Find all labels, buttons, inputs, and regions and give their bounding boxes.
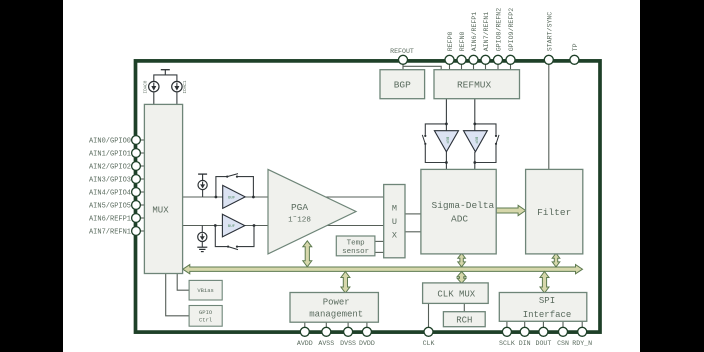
svg-text:REFOUT: REFOUT — [390, 48, 414, 55]
svg-text:Filter: Filter — [537, 207, 571, 218]
pin REFOUT — [399, 55, 408, 64]
wire IDAC0 to MUX — [153, 91, 155, 104]
svg-text:M: M — [392, 204, 397, 214]
Power management — [290, 293, 378, 323]
current source IDAC0 — [149, 81, 159, 91]
wire top pin 1 to REFMUX — [449, 63, 451, 70]
junction dots BUF2 — [214, 224, 217, 227]
bypass switch REF buffer right — [495, 135, 499, 145]
wire Temp sensor to MUX2 a — [375, 240, 384, 242]
svg-text:VBias: VBias — [197, 287, 214, 294]
svg-text:GPIO9/REFP2: GPIO9/REFP2 — [508, 8, 515, 52]
pin DVSS — [344, 327, 353, 336]
wire REFMUX to REF buffer left — [445, 99, 447, 131]
bypass wire REF buffer left — [425, 124, 446, 135]
svg-text:Power: Power — [323, 297, 350, 307]
svg-text:BUF: BUF — [444, 137, 448, 145]
wire Power management pin x=348.1 — [347, 322, 349, 327]
wire top pin 6 to REFMUX — [510, 63, 512, 70]
pin AIN0/GPIO0 (left) — [132, 136, 141, 145]
ADC to Filter arrow — [496, 205, 525, 215]
pin DOUT — [539, 327, 548, 336]
input buffer BUF2 — [222, 214, 244, 237]
wire burnout top to line — [202, 190, 204, 197]
wire line to burnout bottom — [201, 226, 203, 233]
junction dots BUF1 — [215, 196, 218, 199]
svg-text:management: management — [309, 310, 363, 320]
svg-text:AIN0/GPIO0: AIN0/GPIO0 — [89, 138, 131, 146]
bypass switch BUF2 — [227, 246, 238, 250]
svg-text:Interface: Interface — [523, 310, 572, 320]
pin START/SYNC — [544, 55, 553, 64]
wire REFOUT to REFMUX — [403, 66, 441, 69]
svg-text:REFMUX: REFMUX — [457, 80, 492, 91]
pin REFN0 — [457, 55, 466, 64]
wire top pin 5 to REFMUX — [497, 63, 499, 70]
wire REF buffer right to ADC — [474, 152, 476, 170]
bus branch to PGA — [303, 241, 312, 267]
svg-text:X: X — [392, 231, 397, 241]
reference REFMUX — [434, 70, 520, 99]
pin RDY_N — [578, 327, 587, 336]
svg-text:U: U — [392, 217, 397, 227]
wire input pin 5 to MUX — [138, 204, 144, 206]
pin TP — [570, 55, 579, 64]
bus branch to CLK MUX — [457, 272, 466, 284]
svg-text:IDAC1: IDAC1 — [183, 80, 188, 93]
bypass switch REF buffer left — [422, 135, 426, 145]
pin AIN1/GPIO1 (left) — [132, 149, 141, 158]
wire CLK MUX to CLK pin — [428, 303, 430, 327]
svg-text:CSN: CSN — [557, 340, 569, 347]
chip boundary — [136, 61, 601, 332]
bypass wire REF buffer right low — [475, 145, 496, 163]
wire CLK MUX to RCH — [463, 303, 465, 311]
pin AIN7/REFN1 — [481, 55, 490, 64]
burnout current source top — [198, 180, 207, 189]
svg-text:AIN5/GPIO5: AIN5/GPIO5 — [89, 203, 131, 211]
wire Power management pin x=366.9 — [366, 322, 368, 327]
SPI Interface — [499, 293, 587, 322]
analog input MUX — [144, 104, 182, 273]
pin AIN3/GPIO3 (left) — [132, 175, 141, 184]
wire SPI pin x=524.7 — [524, 321, 526, 327]
pin REFP0 — [445, 55, 454, 64]
VBias block — [189, 280, 222, 300]
wire Temp sensor to MUX2 b — [375, 251, 384, 253]
pin DVDD — [362, 327, 371, 336]
wire IDAC rail — [154, 75, 177, 82]
pin AIN2/GPIO2 (left) — [132, 162, 141, 171]
wire input pin 4 to MUX — [138, 191, 144, 193]
pin GPIO8/REFN2 — [494, 55, 503, 64]
power rail for burnout source top — [198, 174, 207, 180]
svg-text:BUF: BUF — [228, 196, 236, 200]
PGA amplifier — [268, 169, 356, 254]
bypass wire around BUF2 right — [237, 226, 254, 247]
wire START/SYNC to Filter — [548, 63, 550, 170]
wire MUX to PGA positive — [183, 196, 268, 198]
wire top pin 3 to REFMUX — [473, 63, 475, 70]
wire IDAC1 to MUX — [176, 91, 178, 104]
wire MUX to VBias — [177, 274, 189, 291]
wire SPI pin x=543.4 — [542, 321, 544, 327]
svg-text:Temp: Temp — [347, 239, 365, 247]
svg-text:BGP: BGP — [394, 80, 411, 91]
bypass wire around BUF1 right — [237, 177, 253, 197]
svg-text:DVDD: DVDD — [359, 340, 375, 347]
wire input pin 1 to MUX — [138, 152, 144, 154]
svg-text:sensor: sensor — [342, 248, 369, 256]
svg-text:1˜128: 1˜128 — [288, 217, 311, 225]
pin DIN — [520, 327, 529, 336]
Sigma-Delta ADC — [421, 169, 496, 254]
bus branch to Filter — [552, 253, 560, 267]
wire top pin 4 to REFMUX — [485, 63, 487, 70]
power rail for IDACs — [161, 70, 170, 75]
svg-text:TP: TP — [572, 43, 579, 51]
bus branch to Sigma-Delta ADC — [458, 253, 466, 267]
svg-text:AIN1/GPIO1: AIN1/GPIO1 — [89, 151, 131, 159]
svg-text:AIN4/GPIO4: AIN4/GPIO4 — [89, 190, 131, 198]
wire input pin 0 to MUX — [138, 139, 144, 141]
svg-text:BUF: BUF — [228, 225, 236, 229]
svg-text:ADC: ADC — [451, 213, 468, 224]
svg-text:DOUT: DOUT — [535, 340, 551, 347]
svg-text:SPI: SPI — [539, 296, 555, 306]
svg-text:CLK MUX: CLK MUX — [437, 289, 475, 299]
svg-text:Sigma-Delta: Sigma-Delta — [432, 200, 495, 211]
wire input pin 7 to MUX — [138, 230, 144, 232]
svg-text:Ctrl: Ctrl — [199, 316, 212, 323]
svg-text:DIN: DIN — [519, 340, 531, 347]
current source IDAC1 — [172, 81, 182, 91]
wire MUX to GPIO Ctrl — [166, 274, 189, 316]
bus branch to Power management — [341, 272, 350, 294]
bypass wire around BUF2 left — [215, 226, 228, 247]
CLK MUX block — [423, 283, 489, 304]
svg-text:MUX: MUX — [152, 205, 169, 215]
digital Filter — [526, 169, 583, 254]
temp sensor — [336, 236, 375, 256]
GPIO Ctrl block — [189, 306, 222, 327]
second MUX — [384, 185, 405, 258]
svg-text:PGA: PGA — [291, 202, 308, 213]
svg-text:AIN3/GPIO3: AIN3/GPIO3 — [89, 177, 131, 185]
pin AIN4/GPIO4 (left) — [132, 188, 141, 197]
pin AIN6/REFP1 — [469, 55, 478, 64]
svg-text:CLK: CLK — [423, 340, 435, 347]
svg-text:AIN2/GPIO2: AIN2/GPIO2 — [89, 164, 131, 172]
pin CLK — [424, 327, 433, 336]
pin AVSS — [322, 327, 331, 336]
svg-text:AIN6/REFP1: AIN6/REFP1 — [471, 12, 478, 52]
svg-text:GPIO8/REFN2: GPIO8/REFN2 — [496, 8, 503, 52]
wire Power management pin x=304.8 — [304, 322, 306, 327]
wire REF buffer left to ADC — [445, 152, 447, 170]
svg-text:START/SYNC: START/SYNC — [546, 12, 553, 52]
wire PGA to MUX2 bottom — [327, 225, 384, 227]
svg-text:AVSS: AVSS — [318, 340, 334, 347]
reference buffer left — [434, 131, 458, 152]
bus branch to SPI Interface — [540, 272, 549, 294]
svg-text:AIN7/REFN1: AIN7/REFN1 — [89, 229, 131, 237]
wire burnout bottom to ground — [201, 242, 203, 248]
bypass wire REF buffer right — [475, 124, 496, 135]
wire SPI pin x=582.2 — [581, 321, 583, 327]
burnout current source bottom — [198, 232, 207, 241]
svg-text:SCLK: SCLK — [499, 340, 515, 347]
wire PGA to MUX2 top — [326, 196, 384, 198]
wire REFMUX to REF buffer right — [474, 99, 476, 131]
svg-text:BUF: BUF — [473, 137, 477, 145]
RCH oscillator — [443, 312, 485, 327]
wire MUX to PGA negative — [183, 225, 268, 227]
pin AIN5/GPIO5 (left) — [132, 201, 141, 210]
wire input pin 2 to MUX — [138, 165, 144, 167]
wire Power management pin x=326.3 — [325, 322, 327, 327]
wire input pin 6 to MUX — [138, 217, 144, 219]
pin CSN — [559, 327, 568, 336]
pin GPIO9/REFP2 — [506, 55, 515, 64]
wire MUX2 to ADC top — [405, 213, 421, 215]
svg-text:IDAC0: IDAC0 — [144, 80, 149, 93]
svg-text:GPIO: GPIO — [199, 309, 213, 316]
pin AIN7/REFN1 (left) — [132, 227, 141, 236]
wire input pin 3 to MUX — [138, 178, 144, 180]
svg-text:REFN0: REFN0 — [459, 31, 466, 51]
data bus (horizontal double arrow) — [183, 265, 583, 274]
reference buffer right — [464, 131, 488, 152]
ground symbol — [197, 247, 207, 251]
input buffer BUF1 — [223, 185, 246, 208]
junction dots reference buffers — [445, 123, 448, 126]
wire SPI pin x=506.9 — [506, 321, 508, 327]
pin SCLK — [502, 327, 511, 336]
svg-text:REFP0: REFP0 — [447, 31, 454, 51]
svg-text:RDY_N: RDY_N — [572, 340, 592, 347]
bypass wire REF buffer left low — [425, 145, 446, 163]
wire REFOUT to BGP — [402, 63, 404, 70]
bypass switch BUF1 — [226, 174, 238, 178]
bandgap BGP — [380, 70, 425, 99]
pin AIN6/REFP1 (left) — [132, 214, 141, 223]
svg-text:AVDD: AVDD — [297, 340, 313, 347]
svg-text:RCH: RCH — [456, 315, 472, 325]
svg-text:AIN7/REFN1: AIN7/REFN1 — [483, 12, 490, 52]
svg-text:DVSS: DVSS — [340, 340, 356, 347]
pin AVDD — [300, 327, 309, 336]
wire SPI pin x=563.0 — [562, 321, 564, 327]
wire MUX2 to ADC bottom — [405, 231, 421, 233]
bypass wire around BUF1 left — [216, 177, 227, 197]
wire top pin 2 to REFMUX — [461, 63, 463, 70]
svg-text:AIN6/REFP1: AIN6/REFP1 — [89, 216, 131, 224]
